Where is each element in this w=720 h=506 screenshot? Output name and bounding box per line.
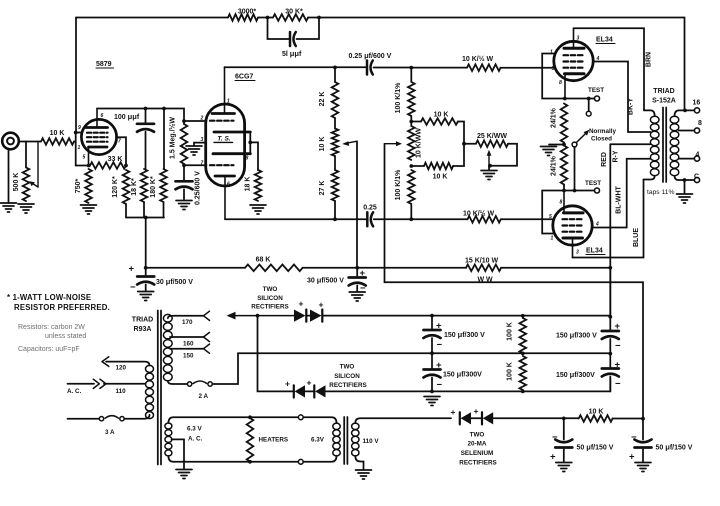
svg-text:6: 6 [101,113,104,119]
wire rail mid [303,267,467,269]
svg-text:unless stated: unless stated [45,333,86,340]
wire mid to right caps [432,352,610,354]
ground 30uf2 [349,292,365,301]
wire secondary top lead 16 [675,110,695,116]
svg-text:SELENIUM: SELENIUM [461,450,494,457]
wire 18K bottom [143,202,145,218]
node pot bottom [409,164,413,168]
label WW [478,277,494,284]
label 50uf/150V second [656,443,693,452]
wire screen lower to R-Y [592,227,627,229]
wire cathode ground stub [194,143,206,146]
wire cap to grid EL34 lower [374,218,468,220]
label 150 [183,353,194,360]
plug tap 150 [204,344,210,353]
svg-text:120: 120 [116,365,127,372]
wire HV bottom to 2A fuse [168,381,188,384]
wire tap 160 [170,336,204,338]
svg-text:−: − [437,340,443,351]
svg-text:10 K: 10 K [434,112,449,119]
wire test lower [542,190,594,192]
svg-text:100 K: 100 K [507,322,514,341]
svg-text:3 A: 3 A [105,429,115,436]
label 6CG7 [235,74,253,81]
capacitor 0.25 coupling lower [367,212,373,226]
label EL34 lower [586,248,603,255]
svg-text:2 A: 2 A [199,393,209,400]
label minus 50uf1 [552,432,558,443]
resistor 15K/10W [466,265,501,272]
svg-text:TEST: TEST [585,180,601,187]
node bleeder mid [521,352,525,356]
wire primary top lead [644,110,655,116]
svg-text:150: 150 [183,353,194,360]
capacitor 50uf/150V first [555,418,572,462]
capacitor 30uf/500V second [349,268,366,292]
wire to heater transformer top [303,417,336,423]
svg-text:+: + [319,300,324,310]
label TWO 20-MA SELENIUM RECTIFIERS [459,432,496,467]
resistor 68K [245,265,303,272]
svg-text:10 K: 10 K [589,409,604,416]
label plus 50uf2 [629,452,635,463]
svg-text:15 K/10 W: 15 K/10 W [465,258,498,265]
wire top to transformer [308,18,685,111]
label 15 K/10 W [465,258,498,265]
wire to heater transformer bottom [303,456,336,462]
wire 3A to primary bottom [124,415,149,419]
resistor 750* [85,169,92,203]
svg-text:taps 11%: taps 11% [647,189,674,196]
capacitor 30uf/500V first [137,268,154,291]
wire 110V bottom to ground [355,456,363,470]
label A.C. [67,388,82,395]
primary coil T2 [650,116,659,176]
ground 25K [481,166,497,180]
svg-text:120 K*: 120 K* [112,176,119,198]
wire to EL34 grid [501,67,555,69]
wire pin1 to cathode [542,54,565,99]
label plus capD [615,360,621,371]
switch normally closed [572,99,591,191]
label minus 50uf2 [631,432,637,443]
resistor 24/1% upper [561,104,568,146]
svg-text:8: 8 [560,200,563,206]
svg-text:5: 5 [552,66,555,72]
svg-text:150 μf/300 V: 150 μf/300 V [444,330,485,339]
svg-text:24/1%: 24/1% [551,107,558,128]
svg-text:30 μf/500 V: 30 μf/500 V [307,276,344,285]
svg-text:+: + [615,360,621,371]
svg-text:−: − [437,380,443,391]
svg-text:0.25: 0.25 [363,205,377,212]
svg-text:50 μf/150 V: 50 μf/150 V [577,443,614,452]
tube 5879 V1 [81,109,116,166]
label 6.3V T3 [311,437,325,444]
svg-text:7: 7 [118,139,121,145]
plug tap 170 [204,311,210,320]
wire center tap ground [172,439,185,469]
potentiometer 10K/WW [385,126,415,160]
capacitor 0.25uf/600V coupling [367,61,373,75]
diode selenium D5 [460,412,471,424]
svg-text:RECTIFIERS: RECTIFIERS [251,304,288,311]
node capC bottom [608,352,612,356]
filament coil 6.3V [165,423,172,456]
wire grid stub lower [184,164,207,166]
svg-text:4: 4 [696,152,700,159]
terminal 4 [694,156,699,161]
wire feedback vertical [75,18,77,133]
svg-text:−: − [130,282,136,293]
capacitor 150uf/300V A [424,316,441,354]
label 2 A [199,393,209,400]
label minus 30uf2 [360,283,366,294]
tube 6CG7 V2 [206,67,251,219]
node capA bottom [430,351,434,355]
resistor 10K bias [579,415,613,422]
node 30K right [317,16,321,20]
wire selenium to 10K [493,417,579,419]
svg-text:110: 110 [116,388,127,395]
svg-text:5: 5 [83,155,86,161]
wire screen to BK-Y [593,62,628,133]
wire filament top [168,417,298,423]
wire to 10K/half W [411,67,467,69]
resistor 100K/1% upper [408,68,415,126]
label TEST upper [588,87,604,94]
svg-text:33 K: 33 K [108,156,123,163]
ground 30uf1 [138,292,154,301]
svg-text:110 V: 110 V [363,438,380,445]
resistor 3000* [228,14,258,21]
svg-text:8: 8 [559,80,562,86]
svg-text:BK-Y: BK-Y [628,98,635,115]
node grid 5879 [74,131,78,135]
svg-text:2: 2 [200,116,204,122]
wire grid stub [76,132,82,134]
label C [694,174,699,181]
label plus capC [615,321,621,332]
svg-text:Resistors: carbon 2W: Resistors: carbon 2W [18,324,85,331]
node 25K left [462,142,466,146]
svg-text:+: + [436,321,442,332]
wire to 25K [464,143,476,145]
wire R-Y down BL-WHT [626,159,628,228]
label 10 K/1/2 W lower [463,210,495,218]
wire AC 110 [68,383,95,385]
note resistors [18,324,86,340]
label plus D1 [299,299,304,309]
wire 180K bottom [163,202,165,218]
secondary coil T2 [670,116,679,176]
wire plate to BRN [574,28,645,110]
svg-text:150 μf/300 V: 150 μf/300 V [556,331,597,340]
resistor 33K [90,162,126,169]
node cathode lower [562,189,566,193]
resistor 100K bleeder lower [520,356,527,391]
node 100K2 bottom [409,217,413,221]
svg-text:8: 8 [698,120,702,127]
svg-text:10 K/WW: 10 K/WW [416,128,423,158]
svg-text:0.25 μf/600 V: 0.25 μf/600 V [349,51,392,60]
svg-text:100 K/1%: 100 K/1% [395,82,402,114]
svg-text:TRIAD: TRIAD [653,88,674,95]
node bus [144,216,148,220]
svg-text:0.25/600 V: 0.25/600 V [195,171,202,205]
plate wire 5879 [97,109,184,122]
wire pot wiper down to B+ [356,141,358,268]
resistor 18K [255,170,262,201]
node grid 6CG7 upper [182,119,186,123]
node between 24 resistors [562,143,566,147]
svg-text:+: + [451,407,456,417]
wire 10K to grid node [74,141,76,143]
wire lower output [225,218,366,220]
fuse 2A [187,381,212,386]
svg-text:−: − [631,432,637,443]
label plus D4 [307,378,312,388]
node C ground [683,178,687,182]
node 30uf2 [355,266,359,270]
ground jack [1,203,17,212]
label taps 11% [647,189,674,196]
wire 110V top to selenium [355,418,451,423]
svg-text:9: 9 [78,125,81,131]
terminal top [298,415,303,420]
svg-text:750*: 750* [75,179,82,194]
node feedback takeoff [683,109,687,113]
wire plate lower to BLUE [573,180,644,258]
svg-text:SILICON: SILICON [257,295,283,302]
node doubler tap [256,314,260,318]
svg-text:C: C [694,174,699,181]
svg-text:100 K/1%: 100 K/1% [395,169,402,201]
svg-text:6.3 V: 6.3 V [187,426,203,433]
resistor 25K/WW [476,140,508,147]
svg-text:* 1-WATT LOW-NOISE: * 1-WATT LOW-NOISE [7,293,91,302]
ground C [677,180,693,203]
wire jack to ground [8,149,10,204]
svg-text:30 μf/500 V: 30 μf/500 V [156,277,193,286]
svg-text:25 K/WW: 25 K/WW [477,133,507,140]
svg-text:BL-WHT: BL-WHT [616,185,623,213]
wire grid stub upper [184,120,207,122]
resistor HEATERS [247,418,254,462]
ground 50uf1 [556,463,572,472]
label 150uf/300V B [443,370,482,379]
label TRIAD S-152A [652,88,676,105]
resistor 30K* [273,14,308,21]
node 3000/30K [266,16,270,20]
test point lower [595,188,600,193]
node 100uuf [144,107,148,111]
svg-text:6CG7: 6CG7 [235,74,253,81]
svg-text:1: 1 [550,50,553,56]
svg-text:1: 1 [551,236,554,242]
svg-text:24/1%: 24/1% [551,155,558,176]
label 120 [116,365,127,372]
wire top left [76,17,228,19]
svg-text:BRN: BRN [646,52,653,67]
wire balance wiper down [385,144,644,419]
svg-text:TWO: TWO [263,286,278,293]
wire test branch [565,98,594,100]
svg-text:−: − [615,379,621,390]
svg-text:+: + [550,452,556,463]
wire tap R-Y [627,158,651,160]
svg-text:22 K: 22 K [319,92,326,107]
ground cathode mid [541,147,557,156]
label plus D2 [319,300,324,310]
wire tap 120 [106,362,150,366]
label TWO SILICON RECTIFIERS upper [251,286,288,311]
capacitor 100uuf [137,109,154,170]
svg-text:10 K: 10 K [319,137,326,152]
node 25K wiper [488,164,492,168]
svg-text:EL34: EL34 [586,248,603,255]
capacitor 51uuf [268,18,320,47]
label HEATERS [259,437,289,444]
svg-text:6.3V: 6.3V [311,437,325,444]
svg-text:W W: W W [478,277,494,284]
svg-text:+: + [436,360,442,371]
plug tap 120 [102,357,109,367]
svg-text:18 K: 18 K [245,177,252,192]
svg-text:3000*: 3000* [238,9,257,16]
label plus D3 [285,379,290,389]
svg-text:1: 1 [227,99,230,105]
svg-text:50 μf/150 V: 50 μf/150 V [656,443,693,452]
svg-text:16: 16 [693,100,701,107]
wire bottom bus [126,217,164,219]
label 6.3V A.C. [187,426,203,443]
wire tap 4 [679,158,695,160]
ground 750 [81,205,97,214]
svg-text:1.5 Meg./½W: 1.5 Meg./½W [169,117,177,159]
svg-text:RED: RED [601,152,608,167]
label T.S. [217,136,230,143]
node 1.5Meg bottom [182,163,186,167]
label plus D6 [474,406,479,416]
ground 6CG7 cathode [186,146,202,155]
label 150uf/300V A [444,330,485,339]
svg-text:A. C.: A. C. [188,436,203,443]
node 100K top [521,314,525,318]
test point upper [595,96,600,101]
wire tap 8 [679,130,695,132]
resistor 10K input [41,138,74,145]
svg-text:TRIAD: TRIAD [132,317,153,324]
potentiometer 500K [23,142,38,202]
svg-text:180 K*: 180 K* [150,176,157,198]
svg-text:1: 1 [78,145,81,151]
node 22K top [333,66,337,70]
diode selenium D6 [471,412,493,424]
svg-text:RECTIFIERS: RECTIFIERS [329,382,366,389]
label 10 K/1/2 W upper [462,55,494,63]
wire AC 3A row [68,418,100,420]
svg-text:18 K*: 18 K* [131,178,138,196]
label 0.25 uf/600 V [349,51,392,60]
node B+ red [608,266,612,270]
wire tap RED [610,143,650,145]
node switch lower [573,189,577,193]
wire between [258,17,273,19]
wire grid node down to cathode wire [76,133,89,166]
resistor 27K [332,156,339,219]
terminal 8 [694,128,699,133]
svg-text:68 K: 68 K [256,257,271,264]
potentiometer 10K mid [332,118,357,156]
resistor 120K* [123,170,130,204]
capacitor 150uf/300V C [602,317,619,354]
diode silicon D4 [305,385,326,397]
wire shield loop [249,132,251,154]
svg-text:3: 3 [576,250,579,256]
resistor 100K/1% lower [408,170,415,219]
terminal 16 [694,108,699,113]
heater transformer T3 core [344,417,347,464]
svg-text:EL34: EL34 [596,37,613,44]
svg-text:+: + [299,299,304,309]
note capacitors [18,346,80,353]
diode silicon D2 [306,310,322,322]
wire 25K right loop [490,144,517,166]
svg-text:+: + [360,268,366,279]
wire 180K drop [163,109,165,170]
label 110 [116,388,127,395]
resistor 10K bridge lower [411,144,464,170]
svg-text:S-152A: S-152A [652,98,676,105]
coil 110V T3 [352,423,359,456]
wire bus to B+ [145,218,147,268]
label 16 [693,100,701,107]
svg-text:SILICON: SILICON [334,373,360,380]
wire primary bottom lead [644,176,655,180]
wiper 25K [487,150,492,166]
svg-text:Normally: Normally [589,128,616,135]
note asterisk line [7,293,110,312]
node heaters top [248,415,252,419]
node heaters bottom [248,460,252,464]
label minus capB [437,380,443,391]
node bleeder bottom [521,390,525,394]
resistor 10K bridge upper [409,118,464,144]
label 110V [363,438,380,445]
label plus 50uf1 [550,452,556,463]
svg-text:20-MA: 20-MA [468,441,487,448]
wire tap 150 [170,348,204,350]
wire tap 110 [104,383,146,385]
wire to pot top [25,142,27,168]
label TRIAD R93A [132,317,153,334]
svg-text:170: 170 [182,319,193,326]
svg-text:+: + [285,379,290,389]
svg-text:5879: 5879 [96,61,112,68]
svg-text:+: + [307,378,312,388]
wire pin1 lower [542,191,554,234]
label 25 K/WW [477,133,507,140]
svg-text:HEATERS: HEATERS [259,437,289,444]
label TWO SILICON RECTIFIERS lower [329,364,366,390]
label minus 30uf1 [130,282,136,293]
ground 50uf2 [635,463,651,472]
transformer T2 core [663,108,666,183]
tube EL34 lower V4 [553,191,592,258]
resistor 22K [332,67,339,118]
label 170 [182,319,193,326]
